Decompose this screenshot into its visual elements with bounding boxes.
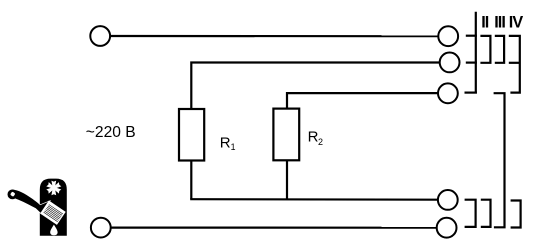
svg-text:R: R (220, 135, 231, 152)
svg-text:III: III (494, 14, 505, 32)
svg-text:2: 2 (318, 137, 323, 147)
svg-text:IV: IV (509, 14, 524, 32)
svg-text:R: R (308, 128, 319, 145)
svg-text:II: II (481, 14, 489, 32)
svg-text:1: 1 (231, 142, 236, 152)
svg-text:~220 В: ~220 В (86, 124, 136, 141)
